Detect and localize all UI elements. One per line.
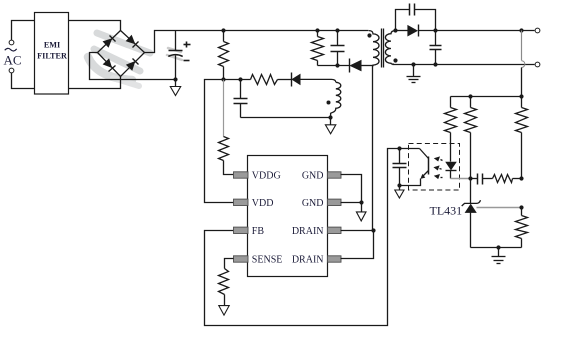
pin DRAIN 2 — [292, 255, 341, 266]
ground below aux winding — [325, 118, 335, 134]
wire AC top to EMI filter — [12, 21, 35, 41]
resistor R5 (LED series) — [445, 97, 457, 162]
snubber loop wire right — [415, 10, 436, 31]
ground below sense resistor — [219, 306, 229, 316]
svg-text:SENSE: SENSE — [252, 255, 283, 266]
junction opto collector node — [397, 146, 401, 150]
decorative gray marks (not labeled parts) — [88, 33, 182, 86]
junction aux RC node — [238, 77, 242, 81]
bridge diode D1 (left-top arm) — [103, 36, 116, 48]
wire clamp bottom — [318, 65, 350, 67]
svg-text:AC: AC — [4, 53, 22, 68]
primary polarity dot — [367, 33, 371, 37]
junction clamp cap bottom — [335, 63, 339, 67]
ground below bulk capacitor — [170, 80, 180, 96]
diode D7 (output rectifier) — [407, 25, 418, 37]
svg-text:DRAIN: DRAIN — [292, 255, 324, 266]
pin VDD — [234, 198, 274, 209]
aux winding L-AUX — [331, 82, 341, 117]
junction secondary top — [393, 28, 397, 32]
pin FB — [234, 226, 265, 237]
transformer core — [382, 29, 384, 68]
capacitor C6 (FB filter) — [393, 149, 407, 186]
wire DRAIN2 — [341, 231, 374, 259]
pin SENSE — [234, 255, 283, 266]
wire to D7 anode — [396, 30, 408, 32]
transformer T1 secondary winding — [385, 31, 395, 64]
junction clamp cap / rail — [335, 28, 339, 32]
bridge rectifier BR1 diamond — [98, 31, 145, 77]
junction DRAIN node — [371, 228, 375, 232]
svg-text:FB: FB — [252, 226, 265, 237]
feedback ground (earth) — [492, 248, 506, 264]
diode D6 (clamp) — [349, 59, 361, 73]
svg-text:GND: GND — [302, 171, 324, 182]
junction ground rail — [496, 245, 500, 249]
junction sense divider tap — [519, 28, 523, 32]
bridge diode D4 (bottom-right arm) — [126, 59, 139, 71]
junction compensation to divider — [519, 176, 523, 180]
svg-text:EMI: EMI — [44, 41, 60, 50]
opto light arrows — [433, 156, 442, 179]
wire EMI top output to bridge AC node — [69, 21, 121, 31]
junction feedback rail at R6 — [468, 94, 472, 98]
junction bulk cap negative — [173, 77, 177, 81]
TL431 reference wire (gray) — [477, 207, 522, 209]
transformer T1 primary winding — [369, 31, 379, 67]
svg-text:GND: GND — [302, 198, 324, 209]
opto phototransistor — [400, 149, 429, 186]
svg-text:TL431: TL431 — [430, 204, 463, 218]
junction opto emitter node — [397, 183, 401, 187]
wire bridge negative output loop — [90, 53, 176, 80]
diode D5 (aux rectifier) — [291, 73, 300, 87]
resistor R4 (clamp) — [312, 31, 324, 66]
pin VDDG — [234, 171, 281, 182]
junction feedback rail right — [519, 94, 523, 98]
wire TL431 cathode — [470, 179, 472, 204]
wire secondary bottom rail — [393, 64, 535, 66]
wire SENSE pin — [225, 259, 234, 269]
wire divider feed (gray, hops over return line) — [522, 31, 525, 97]
wire aux resistor to D5 — [278, 79, 292, 81]
junction output positive — [433, 28, 437, 32]
svg-text:DRAIN: DRAIN — [292, 226, 324, 237]
wire EMI bottom output to bridge AC node — [69, 77, 121, 89]
junction HV rail / startup resistor — [221, 28, 225, 32]
feedback bias rail — [451, 96, 522, 98]
resistor R3 (aux rectifier series) — [251, 75, 278, 85]
secondary feedback ground rail — [471, 247, 522, 249]
controller IC U1 body — [248, 156, 328, 277]
junction aux winding return — [328, 115, 332, 119]
opto LED — [445, 162, 457, 179]
svg-text:VDDG: VDDG — [252, 171, 281, 182]
resistor R2 (to VDDG pin) — [219, 137, 234, 175]
junction clamp resistor / rail — [315, 28, 319, 32]
capacitor C4 (diode snubber) — [410, 4, 415, 16]
wire DRAIN1 — [341, 230, 374, 232]
capacitor C7 (compensation) — [471, 174, 493, 185]
wire bridge positive output to HV rail — [145, 31, 369, 53]
pin GND 2 — [302, 198, 341, 209]
opto LED cathode wire (gray) — [451, 178, 471, 180]
junction LED cathode / TL431 cathode — [468, 176, 472, 180]
resistor R7 (divider upper) — [516, 97, 528, 179]
secondary ground (earth) — [407, 65, 421, 83]
secondary polarity dot — [393, 58, 397, 62]
aux winding polarity dot — [327, 101, 331, 105]
pin GND 1 — [302, 171, 341, 182]
capacitor C3 (clamp) — [331, 31, 345, 66]
junction output cap bottom — [433, 62, 437, 66]
wire primary bottom to DRAIN node — [372, 66, 374, 231]
TL431 label — [430, 204, 463, 218]
bulk capacitor C1 (polarized) — [168, 31, 190, 80]
AC source terminals and label — [4, 40, 22, 73]
wire opto collector to FB — [205, 149, 400, 326]
capacitor C5 (output) — [430, 31, 442, 65]
wire D7 cathode to output node — [419, 30, 436, 32]
output terminal - — [535, 62, 540, 67]
optocoupler U2 package (dashed) — [409, 144, 460, 191]
wire D6 anode to primary bottom — [362, 65, 374, 67]
svg-text:FILTER: FILTER — [37, 52, 67, 61]
bridge diode D3 (left-bottom arm) — [103, 58, 116, 71]
ground below GND pins — [356, 203, 366, 221]
snubber loop wire — [396, 10, 410, 31]
wire VDD node to VDD pin — [205, 80, 234, 203]
junction VDD node — [221, 77, 225, 81]
wire GND2 to ground — [341, 202, 362, 204]
capacitor C2 (VDD bypass) — [234, 80, 331, 118]
resistor R8 (compensation) — [493, 175, 522, 183]
TL431 shunt regulator U3 — [462, 200, 481, 247]
resistor R6 (bias) — [465, 97, 477, 179]
pin DRAIN 1 — [292, 226, 341, 237]
output terminal + — [535, 28, 540, 33]
wire VDD node down to R2 (gray) — [223, 80, 225, 137]
wire VDD node to aux resistor — [224, 79, 251, 81]
EMI filter block U-EMI — [35, 13, 69, 95]
bridge diode D2 (top-right arm) — [126, 35, 139, 48]
junction GND node — [359, 200, 363, 204]
wire AC bottom to EMI filter — [12, 73, 35, 89]
wire GND1 to ground — [341, 175, 362, 203]
ground below opto — [395, 186, 404, 199]
wire output positive rail — [436, 30, 535, 32]
resistor R1 (rail to VDD node) — [219, 31, 229, 80]
junction secondary ground tap — [411, 62, 415, 66]
resistor R10 (current sense) — [219, 269, 229, 306]
svg-text:VDD: VDD — [252, 198, 274, 209]
wire D5 to aux winding — [301, 79, 336, 82]
resistor R9 (divider lower) — [516, 208, 528, 248]
junction divider midpoint — [519, 205, 523, 209]
